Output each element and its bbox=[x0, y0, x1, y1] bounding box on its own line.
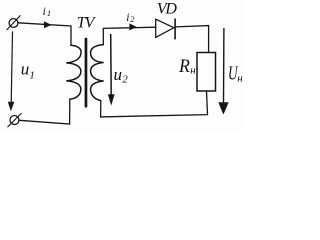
svg-text:1: 1 bbox=[29, 70, 35, 82]
label i2 bbox=[126, 12, 135, 24]
label u1 bbox=[21, 59, 35, 81]
svg-text:н: н bbox=[237, 72, 243, 84]
arrowhead u1 bbox=[8, 102, 14, 110]
winding secondary TV bbox=[91, 45, 104, 101]
label u2 bbox=[114, 65, 129, 86]
terminal top-left bbox=[9, 19, 18, 28]
label Rn bbox=[178, 57, 196, 77]
wire diode to right corner, down to resistor bbox=[176, 26, 209, 53]
wire primary bottom lead bbox=[19, 99, 70, 124]
transformer core bbox=[85, 39, 88, 106]
voltage arrow Un bbox=[223, 28, 225, 103]
svg-text:1: 1 bbox=[47, 8, 51, 18]
diode VD cathode bar bbox=[174, 19, 176, 39]
svg-text:TV: TV bbox=[77, 15, 97, 32]
label i1 bbox=[43, 6, 52, 18]
wire secondary bottom lead + bottom rail bbox=[101, 91, 208, 117]
svg-text:u: u bbox=[21, 59, 30, 78]
arrowhead i2 bbox=[130, 24, 136, 30]
svg-text:i: i bbox=[43, 6, 46, 18]
svg-text:u: u bbox=[114, 65, 123, 84]
winding primary TV bbox=[66, 45, 81, 99]
terminal bottom-left bbox=[10, 116, 19, 125]
voltage arrow u2 bbox=[110, 35, 113, 95]
arrowhead u2 bbox=[108, 95, 114, 105]
wire primary top bbox=[18, 23, 71, 46]
svg-text:н: н bbox=[190, 64, 196, 76]
wire secondary top bbox=[103, 27, 156, 45]
resistor Rn box bbox=[197, 53, 216, 92]
terminal slash bottom-left bbox=[8, 114, 21, 127]
svg-text:i: i bbox=[126, 12, 129, 24]
arrowhead i1 bbox=[44, 22, 51, 28]
svg-text:2: 2 bbox=[130, 14, 135, 24]
arrowhead Un bbox=[219, 103, 228, 114]
diode VD triangle bbox=[156, 19, 174, 37]
voltage arrow u1 bbox=[11, 32, 12, 103]
svg-text:R: R bbox=[178, 57, 190, 77]
label Un bbox=[228, 64, 243, 85]
terminal slash top-left bbox=[7, 16, 20, 30]
svg-text:VD: VD bbox=[157, 1, 177, 18]
svg-text:2: 2 bbox=[122, 73, 128, 85]
